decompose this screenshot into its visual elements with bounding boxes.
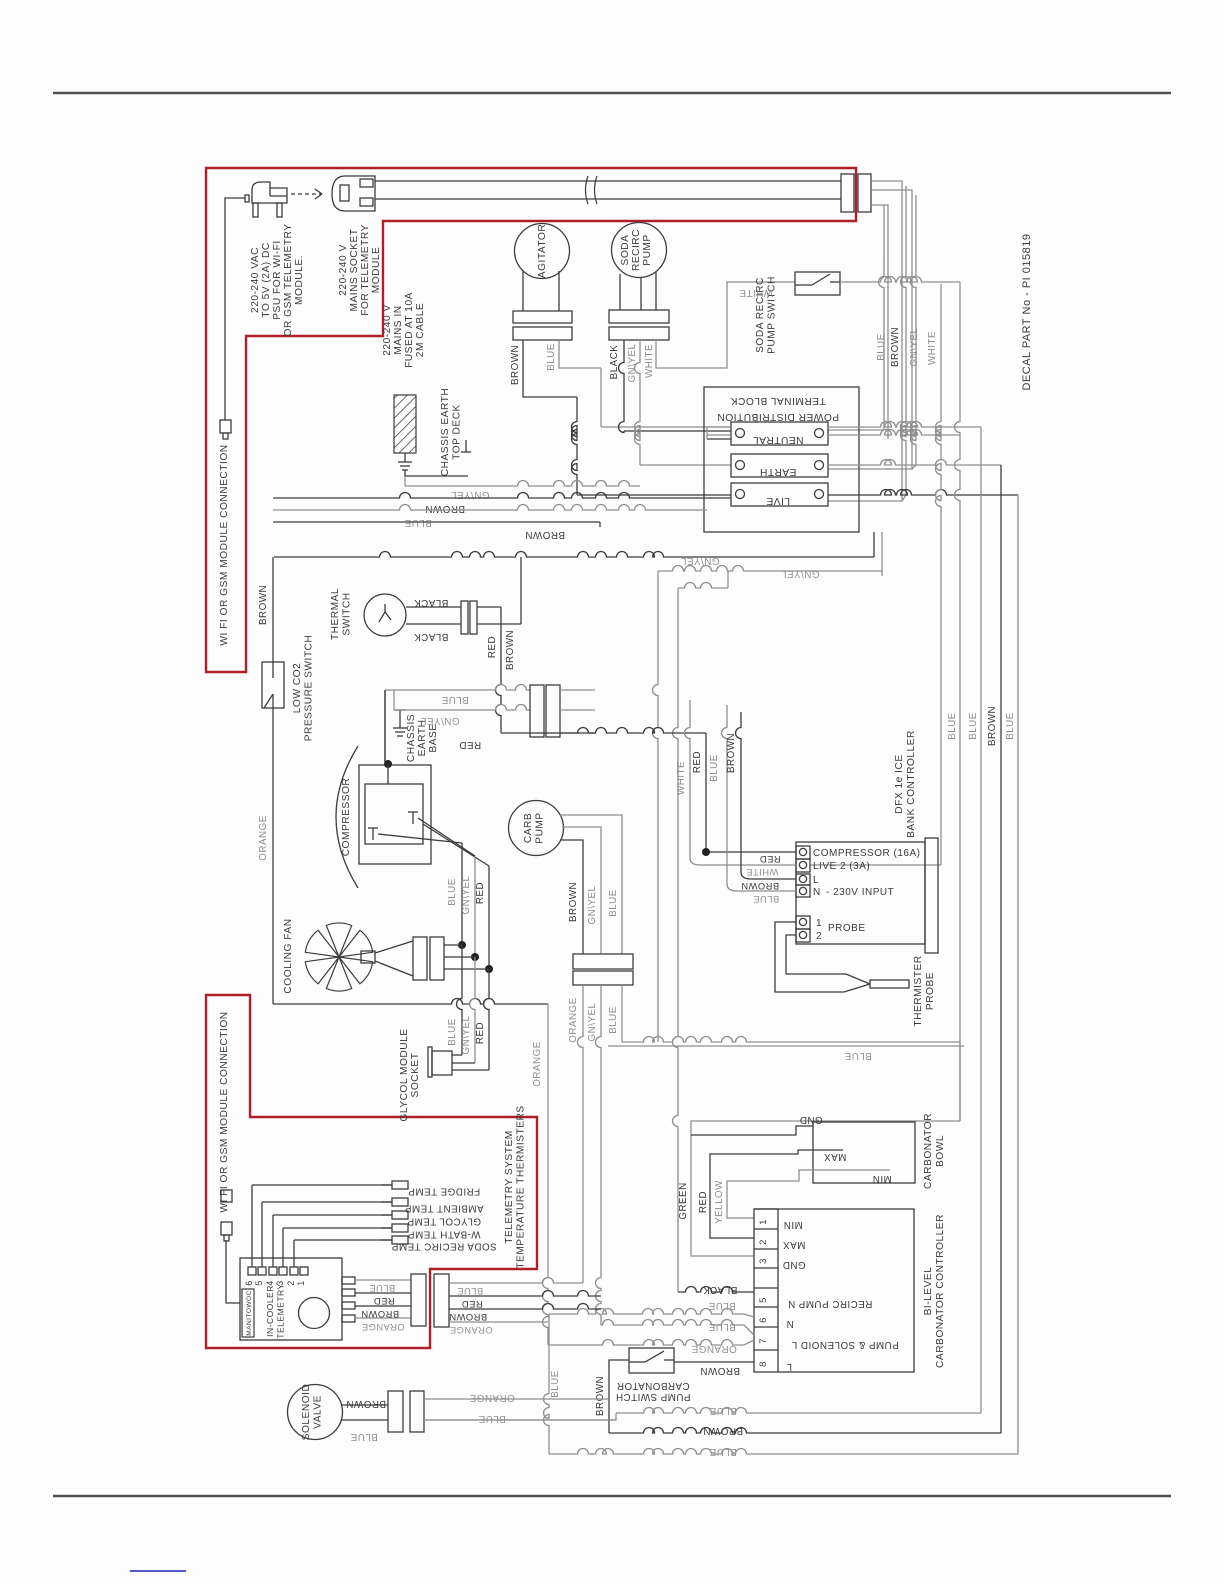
label gnd [799, 1114, 822, 1125]
svg-text:GND: GND [799, 1114, 822, 1125]
compressor arc [336, 746, 358, 888]
svg-text:LIVE: LIVE [766, 495, 790, 506]
carb pump [509, 801, 564, 856]
svg-text:L: L [786, 1361, 792, 1372]
svg-text:3: 3 [758, 1258, 769, 1264]
wire mains gn-yel tail [828, 190, 916, 469]
wire carb leads [560, 815, 622, 954]
svg-text:BLUE: BLUE [709, 754, 720, 782]
svg-text:CARBONATOR CONTROLLER: CARBONATOR CONTROLLER [935, 1214, 946, 1368]
svg-text:LIVE 2 (3A): LIVE 2 (3A) [813, 861, 870, 872]
label low co2 pressure switch [292, 635, 315, 742]
svg-text:TELEMETRY SYSTEM: TELEMETRY SYSTEM [504, 1130, 515, 1244]
svg-text:BLUE: BLUE [844, 1050, 872, 1061]
label in-cooler telemetry [265, 1283, 286, 1338]
wire orange left [273, 708, 548, 1345]
svg-text:PRESSURE SWITCH: PRESSURE SWITCH [304, 635, 315, 742]
svg-text:GN\YEL: GN\YEL [587, 1002, 598, 1041]
thermal connector [461, 601, 477, 634]
chassis earth top deck symbol [394, 395, 468, 476]
svg-text:BLUE: BLUE [441, 694, 469, 705]
label carb leads [568, 882, 619, 925]
wire pin6 blue [549, 1309, 754, 1317]
svg-text:RED: RED [487, 636, 498, 658]
svg-text:RED: RED [461, 1299, 482, 1309]
label dfx wire colours [741, 854, 781, 904]
wire red 489 [485, 866, 493, 973]
bi-level pin cells [754, 1209, 778, 1350]
wire blue horizontal 690 [385, 685, 530, 690]
svg-text:MAX: MAX [783, 1239, 806, 1250]
label mains wire colours [876, 327, 938, 367]
label soda recirc pump switch [755, 276, 778, 354]
compressor terminal T1 [368, 828, 378, 840]
svg-text:RED: RED [759, 854, 780, 864]
label black black [414, 597, 449, 642]
svg-text:GN\YEL: GN\YEL [461, 875, 472, 914]
svg-text:5: 5 [254, 1280, 264, 1286]
label blue drop [550, 1370, 561, 1398]
label brown pin8 [700, 1365, 740, 1376]
svg-text:PSU FOR WI-FI: PSU FOR WI-FI [272, 240, 283, 320]
wire gn-yel branch 2 [673, 571, 883, 1292]
svg-text:BLUE: BLUE [550, 1370, 561, 1398]
svg-text:BROWN: BROWN [510, 345, 521, 385]
agitator connector [513, 311, 572, 340]
svg-text:220-240 V: 220-240 V [338, 244, 349, 296]
svg-text:THERMISTER: THERMISTER [913, 955, 924, 1026]
label solenoid orange [469, 1392, 514, 1403]
wires telemetry to connector [355, 1280, 411, 1318]
wire pin7 blue [601, 1320, 754, 1335]
telemetry output pins [342, 1277, 355, 1322]
svg-text:GN\YEL: GN\YEL [909, 327, 920, 366]
label min [872, 1173, 891, 1184]
svg-text:BLUE: BLUE [876, 333, 887, 361]
wire bowl min [727, 1170, 890, 1218]
svg-text:BROWN: BROWN [595, 1376, 606, 1416]
label 220-240V mains in [382, 292, 426, 368]
svg-text:BLUE: BLUE [478, 1413, 506, 1424]
wire PSU to wifi module [225, 198, 245, 420]
svg-text:BROWN: BROWN [987, 706, 998, 746]
label compressor tails [447, 875, 486, 914]
label bi-level controller [923, 1214, 946, 1368]
label compressor [341, 778, 352, 857]
svg-text:BROWN: BROWN [449, 1312, 487, 1322]
svg-text:MAX: MAX [824, 1151, 847, 1162]
label white (switch wire) [739, 287, 773, 298]
dfx terminal live2 [796, 859, 870, 872]
svg-text:BLUE: BLUE [608, 1006, 619, 1034]
label blue pin7 [708, 1321, 736, 1332]
wire live exit right [828, 490, 1018, 496]
carbonator bowl box [813, 1122, 915, 1183]
svg-text:MAINS IN: MAINS IN [393, 305, 404, 354]
svg-text:N: N [813, 887, 821, 898]
svg-text:220-240 VAC: 220-240 VAC [250, 247, 261, 313]
svg-text:BLUE: BLUE [708, 1321, 736, 1332]
wire solenoid orange [424, 1398, 608, 1400]
solenoid valve [288, 1384, 343, 1441]
wire fan leads [444, 945, 489, 969]
wire bus 960 [691, 282, 960, 1256]
label carb tails [568, 997, 619, 1042]
svg-text:BLUE: BLUE [447, 1018, 458, 1046]
svg-text:BANK CONTROLLER: BANK CONTROLLER [906, 730, 917, 838]
wire dfx blue feed [722, 705, 797, 891]
svg-text:WHITE: WHITE [644, 344, 655, 378]
svg-text:BROWN: BROWN [361, 1309, 399, 1319]
svg-text:GLYCOL TEMP: GLYCOL TEMP [407, 1216, 481, 1227]
label gn-yel horizontals [680, 555, 819, 579]
red highlight outline: wifi/gsm module connection (top) [206, 168, 856, 672]
svg-text:BROWN: BROWN [346, 1398, 386, 1409]
svg-text:PUMP & SOLENOID L: PUMP & SOLENOID L [791, 1339, 898, 1350]
wire soda pump leads [620, 272, 656, 310]
wire pin5 black [678, 1287, 754, 1292]
wire switch left drop [609, 1360, 629, 1433]
svg-text:COMPRESSOR (16A): COMPRESSOR (16A) [813, 848, 920, 859]
svg-text:WHITE: WHITE [676, 761, 687, 795]
svg-text:WHITE: WHITE [746, 867, 778, 877]
labels telemetry wires [361, 1283, 405, 1332]
svg-text:ORANGE: ORANGE [532, 1041, 543, 1086]
terminal NEUTRAL [731, 422, 828, 445]
compressor inner box [365, 784, 423, 844]
terminal LIVE [731, 483, 828, 506]
svg-text:4: 4 [265, 1280, 275, 1286]
telemetry pin digits [244, 1280, 306, 1286]
svg-text:6: 6 [244, 1280, 254, 1286]
svg-text:2: 2 [286, 1280, 296, 1286]
svg-text:BROWN: BROWN [505, 630, 516, 670]
svg-text:BLUE: BLUE [369, 1283, 395, 1293]
compressor feed connector [530, 685, 560, 737]
svg-text:BLACK: BLACK [703, 1284, 738, 1295]
svg-text:GN\YEL: GN\YEL [587, 885, 598, 924]
label 220-240 VAC PSU [250, 224, 305, 337]
wire switch to right bus [840, 277, 960, 283]
bi-level controller box [754, 1209, 914, 1372]
svg-text:BROWN: BROWN [726, 733, 737, 773]
label agitator wires [510, 343, 557, 385]
svg-text:MODULE: MODULE [371, 247, 382, 294]
svg-text:BLUE: BLUE [947, 712, 958, 740]
svg-text:MIN: MIN [783, 1219, 802, 1230]
bi-level pin numbers [758, 1219, 769, 1367]
svg-text:AMBIENT TEMP: AMBIENT TEMP [404, 1203, 483, 1214]
label decal part no [1021, 234, 1033, 391]
svg-text:MODULE.: MODULE. [294, 255, 305, 305]
dashed arrow plug to socket [291, 189, 322, 199]
wire thermal brown [477, 557, 521, 624]
solenoid connector [388, 1391, 424, 1432]
wifi module connector 1 [220, 420, 231, 439]
wire brown low [273, 522, 600, 527]
svg-text:BLUE: BLUE [709, 1446, 737, 1457]
PSU plug symbol [245, 182, 287, 217]
wire soda gn-yel [635, 340, 732, 465]
label chassis earth top deck [440, 388, 471, 476]
wire brown block [273, 493, 731, 499]
wire bowl gnd [691, 1126, 813, 1135]
wire compressor diag 3 [423, 824, 489, 866]
dfx controller box [796, 838, 938, 953]
svg-text:TEMPERATURE THERMISTERS: TEMPERATURE THERMISTERS [516, 1105, 527, 1268]
mains cable connector [841, 174, 871, 212]
wire blue drop 549 [544, 1314, 550, 1454]
svg-text:BLUE: BLUE [447, 878, 458, 906]
fan connector [413, 937, 444, 980]
wire agitator brown [523, 340, 731, 495]
wire connector to right [560, 690, 595, 733]
wire neutral exit right 2 [828, 430, 960, 436]
wire solenoid blue [424, 1419, 616, 1421]
wire block bottom brown [274, 532, 874, 557]
thermister probe [870, 980, 909, 988]
svg-text:ORANGE: ORANGE [568, 997, 579, 1042]
svg-text:PUMP: PUMP [642, 234, 653, 265]
wire blue top [273, 505, 707, 511]
svg-text:FRIDGE TEMP: FRIDGE TEMP [408, 1186, 480, 1197]
svg-text:TELEMETRY: TELEMETRY [276, 1283, 286, 1338]
top horizontal rule [53, 92, 1171, 95]
svg-text:BI-LEVEL: BI-LEVEL [923, 1267, 934, 1316]
wire bus blue 981 [424, 427, 981, 1420]
label blue 1042 [844, 1050, 872, 1061]
svg-text:GN\YEL: GN\YEL [627, 343, 638, 382]
carb connector [573, 954, 633, 985]
svg-text:BLUE: BLUE [1005, 712, 1016, 740]
svg-text:DFX 1e ICE: DFX 1e ICE [894, 754, 905, 813]
compressor outer box [359, 765, 431, 864]
svg-text:FOR TELEMETRY: FOR TELEMETRY [360, 224, 371, 316]
svg-text:2: 2 [758, 1239, 769, 1245]
wire mains brown tail [828, 181, 906, 501]
wire agitator blue [559, 340, 731, 427]
footer blue link line [130, 1570, 186, 1572]
svg-text:BLUE: BLUE [709, 1405, 737, 1416]
label green red yellow [678, 1180, 725, 1224]
svg-text:RED: RED [459, 739, 481, 750]
wire blue 1042 [622, 1037, 960, 1122]
wire compressor earth drop [385, 690, 388, 784]
wire carb tails [578, 985, 623, 1325]
junction dot compressor earth [384, 760, 392, 768]
svg-text:SODA RECIRC TEMP: SODA RECIRC TEMP [391, 1241, 496, 1252]
label carbonator pump switch [616, 1380, 691, 1402]
svg-text:MANITOWOC: MANITOWOC [246, 1290, 253, 1336]
svg-text:BROWN: BROWN [703, 1425, 743, 1436]
svg-text:ORANGE: ORANGE [258, 815, 269, 860]
wire solenoid leads [341, 1405, 388, 1420]
compressor terminal T2 [408, 812, 418, 824]
telemetry circle [299, 1298, 330, 1329]
svg-text:1: 1 [296, 1280, 306, 1286]
svg-text:IN-COOLER: IN-COOLER [265, 1285, 275, 1337]
wire probe 1 [775, 922, 870, 992]
label wifi/gsm module connection 1 [219, 444, 230, 645]
telemetry connector half 2 [434, 1274, 449, 1327]
label blue pin6 [708, 1300, 736, 1311]
wire neutral exit right 1 [828, 422, 981, 427]
svg-text:L: L [813, 875, 819, 886]
label brown block [425, 503, 465, 514]
svg-text:RED: RED [475, 882, 486, 904]
wire earth exit right [828, 460, 1001, 466]
wire dfx white feed [685, 700, 796, 865]
svg-text:BROWN: BROWN [425, 503, 465, 514]
soda recirc pump switch [795, 272, 840, 295]
wifi module connector 2 [221, 1222, 232, 1241]
svg-text:WI FI OR GSM MODULE CONNE: WI FI OR GSM MODULE CONNECTION [219, 1011, 230, 1212]
svg-text:BROWN: BROWN [700, 1365, 740, 1376]
svg-text:VALVE: VALVE [313, 1395, 324, 1429]
svg-text:7: 7 [758, 1338, 769, 1344]
svg-text:1: 1 [758, 1219, 769, 1225]
svg-text:BLACK: BLACK [609, 345, 620, 380]
svg-text:GN\YEL: GN\YEL [780, 568, 819, 579]
svg-text:PROBE: PROBE [828, 923, 866, 934]
svg-text:BLUE: BLUE [968, 712, 979, 740]
label gn-yel 710 [420, 715, 459, 726]
svg-text:FUSED AT 10A: FUSED AT 10A [404, 292, 415, 368]
cooling fan [305, 923, 372, 991]
svg-text:GND: GND [782, 1259, 805, 1270]
svg-text:ORANGE: ORANGE [691, 1343, 736, 1354]
wire gnyel 475 [471, 856, 479, 961]
svg-text:NEUTRAL: NEUTRAL [752, 434, 803, 445]
svg-text:BLUE: BLUE [708, 1300, 736, 1311]
label thermister probe [913, 955, 936, 1026]
svg-text:YELLOW: YELLOW [714, 1180, 725, 1224]
svg-text:BOWL: BOWL [935, 1135, 946, 1167]
svg-text:WHITE: WHITE [927, 331, 938, 365]
svg-text:TO 5V (2A) DC: TO 5V (2A) DC [261, 242, 272, 317]
telemetry connector half 1 [411, 1274, 426, 1326]
wire blue 462 [458, 843, 466, 949]
wire brown co2 [272, 557, 274, 662]
svg-text:OR GSM TELEMETRY: OR GSM TELEMETRY [283, 224, 294, 337]
label power distribution terminal block [717, 395, 839, 422]
dfx probe terminals [796, 916, 866, 942]
agitator motor [515, 224, 570, 279]
wires connector2 right [449, 1278, 601, 1323]
dfx terminal compressor [796, 846, 920, 859]
svg-text:BROWN: BROWN [890, 327, 901, 367]
label dfx controller [894, 730, 917, 838]
label bottom wires [703, 1405, 743, 1457]
label orange left [258, 815, 543, 1086]
wire white bus [810, 284, 941, 865]
svg-text:BLUE: BLUE [753, 894, 779, 904]
label brown low [525, 529, 565, 540]
svg-text:AGITATOR: AGITATOR [537, 224, 548, 278]
wire agitator leads [523, 271, 559, 311]
svg-text:BLACK: BLACK [414, 597, 449, 608]
carbonator pump switch [629, 1348, 674, 1373]
svg-text:BLUE: BLUE [546, 343, 557, 371]
svg-text:CARB: CARB [523, 813, 534, 843]
wire soda white [656, 282, 795, 368]
svg-text:TERMINAL BLOCK: TERMINAL BLOCK [730, 395, 826, 406]
probe surround box [608, 1045, 964, 1047]
svg-text:BROWN: BROWN [258, 585, 269, 625]
thermal switch [364, 594, 406, 636]
label fan tails [447, 1015, 486, 1054]
label blue top [404, 517, 432, 528]
svg-text:SODA: SODA [620, 235, 631, 266]
label gn-yel earth [450, 489, 489, 500]
label blue 690 [441, 694, 469, 705]
in-cooler telemetry box [240, 1258, 342, 1340]
svg-text:PUMP SWITCH: PUMP SWITCH [616, 1391, 691, 1402]
manitowoc logo [242, 1289, 254, 1337]
wire dfx red feed [702, 848, 796, 856]
svg-text:2M CABLE: 2M CABLE [415, 303, 426, 357]
wire gn-yel 710 [394, 690, 530, 710]
wire dfx brown feed [736, 712, 796, 879]
svg-text:- 230V INPUT: - 230V INPUT [826, 887, 894, 898]
svg-text:CHASSIS: CHASSIS [406, 714, 417, 762]
svg-text:GN\YEL: GN\YEL [461, 1015, 472, 1054]
glycol module socket [428, 1047, 489, 1077]
mains cable [375, 176, 841, 204]
wire compressor diag 2 [418, 818, 475, 856]
svg-text:1: 1 [816, 918, 822, 929]
label glycol module socket [399, 1028, 421, 1121]
svg-text:2: 2 [816, 931, 822, 942]
svg-text:TOP DECK: TOP DECK [452, 404, 463, 460]
svg-text:DECAL PART No - PI 015819: DECAL PART No - PI 015819 [1021, 234, 1033, 391]
wire compressor diag 1 [378, 834, 462, 843]
svg-text:GREEN: GREEN [678, 1182, 689, 1219]
label 220-240V mains socket [338, 224, 382, 316]
thermistor connectors [381, 1181, 497, 1252]
label solenoid blue [478, 1413, 506, 1424]
svg-text:GN\YEL: GN\YEL [420, 715, 459, 726]
wire wifi2 to telemetry [226, 1240, 240, 1303]
svg-text:220-240 V: 220-240 V [382, 304, 393, 356]
svg-text:PUMP: PUMP [535, 812, 546, 843]
svg-text:CARBONATOR: CARBONATOR [616, 1380, 689, 1391]
svg-text:SOLENOID: SOLENOID [301, 1384, 312, 1441]
svg-text:MAINS SOCKET: MAINS SOCKET [349, 229, 360, 312]
label brown co2 [258, 585, 269, 625]
wire thermal leads [406, 607, 461, 624]
svg-text:RECIRC PUMP N: RECIRC PUMP N [788, 1298, 873, 1309]
svg-text:RED: RED [698, 1191, 709, 1213]
labels connector2 wires [449, 1286, 493, 1335]
svg-text:MIN: MIN [872, 1173, 891, 1184]
mains socket symbol [332, 176, 375, 211]
wire bus brown 1001 [609, 465, 1001, 1433]
svg-text:WI FI OR GSM MODULE CONNE: WI FI OR GSM MODULE CONNECTION [219, 444, 230, 645]
svg-text:EARTH: EARTH [760, 466, 797, 477]
svg-text:5: 5 [758, 1297, 769, 1303]
label soda pump wires [609, 343, 655, 382]
wire soda black [619, 340, 731, 433]
label orange pin7 [691, 1343, 736, 1354]
label black pin5 [703, 1284, 738, 1295]
svg-text:GN\YEL: GN\YEL [680, 555, 719, 566]
bi-level labels [782, 1219, 898, 1372]
wire pin8 brown [674, 1361, 754, 1363]
dfx terminal L [796, 874, 819, 886]
power distribution terminal block box [704, 387, 859, 532]
label telemetry system thermisters [504, 1105, 527, 1268]
